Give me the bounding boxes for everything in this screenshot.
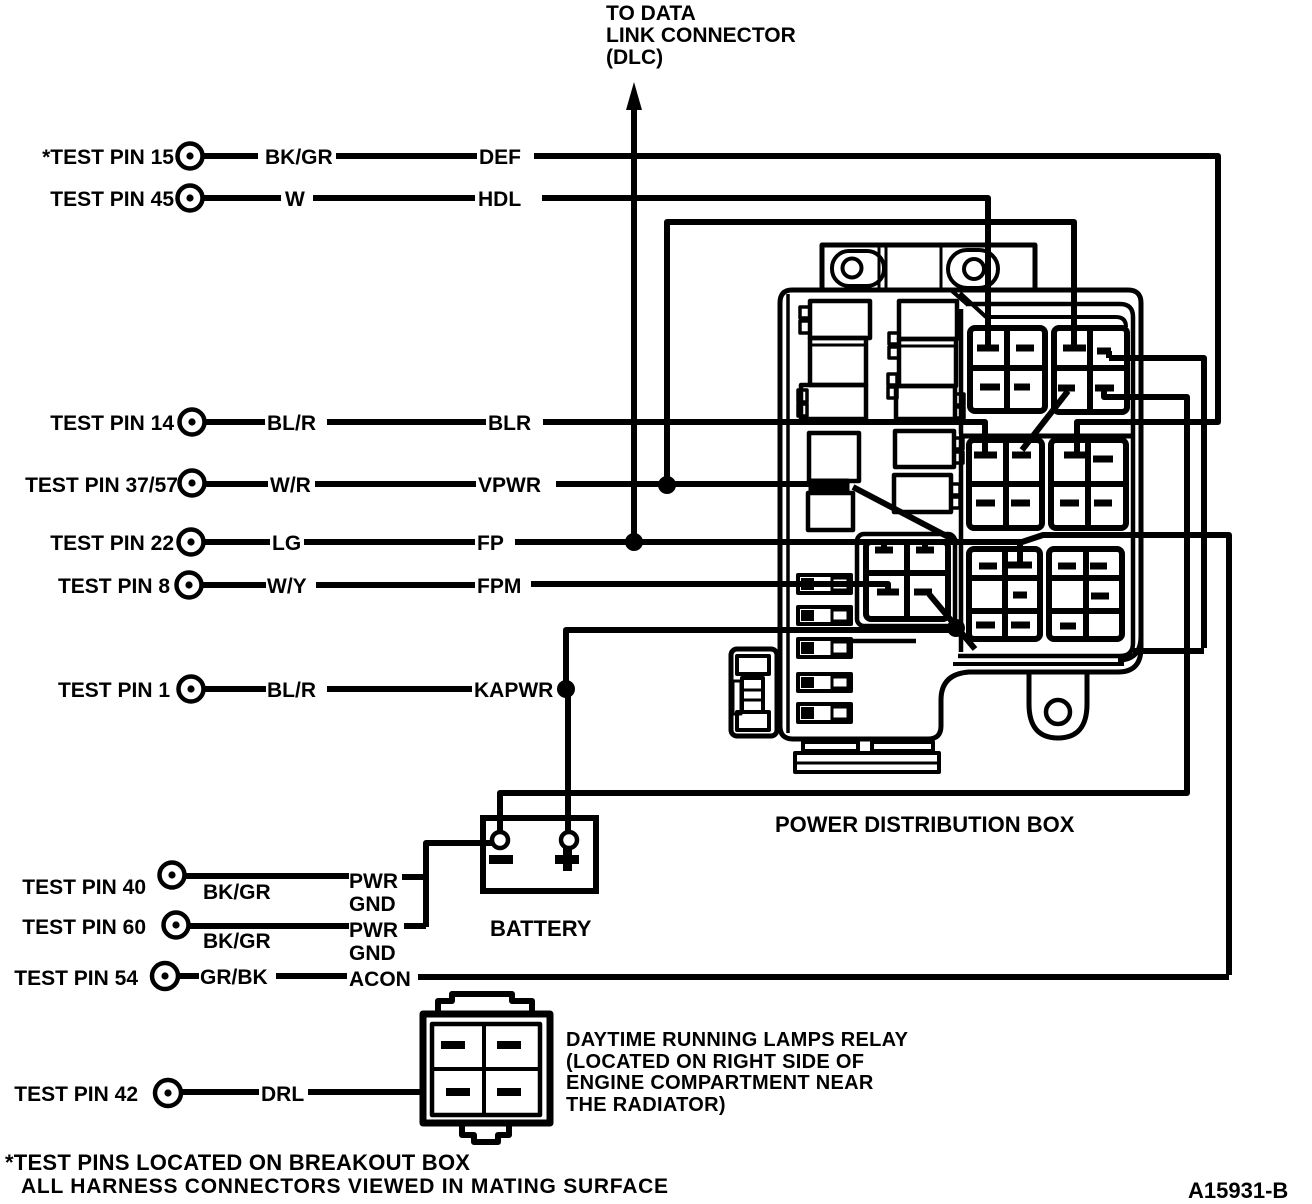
svg-text:GR/BK: GR/BK xyxy=(200,966,268,989)
svg-text:(DLC): (DLC) xyxy=(606,46,663,69)
svg-text:A15931-B: A15931-B xyxy=(1188,1178,1288,1203)
svg-text:*TEST PIN 15: *TEST PIN 15 xyxy=(42,146,174,169)
svg-text:BATTERY: BATTERY xyxy=(490,916,592,941)
svg-text:TO DATA: TO DATA xyxy=(606,2,696,25)
svg-text:POWER DISTRIBUTION BOX: POWER DISTRIBUTION BOX xyxy=(775,812,1075,837)
svg-text:W: W xyxy=(285,188,305,211)
svg-text:ALL HARNESS CONNECTORS VIEWED: ALL HARNESS CONNECTORS VIEWED IN MATING … xyxy=(21,1175,669,1198)
svg-text:KAPWR: KAPWR xyxy=(474,679,553,702)
svg-text:TEST PIN 54: TEST PIN 54 xyxy=(14,967,138,990)
svg-text:BLR: BLR xyxy=(488,412,531,435)
svg-text:GND: GND xyxy=(349,942,396,965)
svg-text:TEST PIN 40: TEST PIN 40 xyxy=(22,876,146,899)
svg-text:BL/R: BL/R xyxy=(267,412,316,435)
svg-text:TEST PIN 8: TEST PIN 8 xyxy=(58,575,170,598)
svg-text:TEST PIN 45: TEST PIN 45 xyxy=(50,188,174,211)
svg-text:THE RADIATOR): THE RADIATOR) xyxy=(566,1094,726,1116)
svg-text:BK/GR: BK/GR xyxy=(265,146,333,169)
svg-text:BK/GR: BK/GR xyxy=(203,930,271,953)
svg-text:ACON: ACON xyxy=(349,968,411,991)
svg-text:HDL: HDL xyxy=(478,188,521,211)
svg-text:BL/R: BL/R xyxy=(267,679,316,702)
svg-text:DEF: DEF xyxy=(479,146,521,169)
svg-text:TEST PIN 37/57: TEST PIN 37/57 xyxy=(25,474,178,497)
svg-text:TEST PIN 22: TEST PIN 22 xyxy=(50,532,174,555)
svg-text:TEST PIN 14: TEST PIN 14 xyxy=(50,412,174,435)
svg-text:DRL: DRL xyxy=(261,1083,304,1106)
svg-text:LG: LG xyxy=(272,532,301,555)
svg-text:(LOCATED ON RIGHT SIDE OF: (LOCATED ON RIGHT SIDE OF xyxy=(566,1051,864,1073)
svg-text:BK/GR: BK/GR xyxy=(203,881,271,904)
svg-text:ENGINE COMPARTMENT NEAR: ENGINE COMPARTMENT NEAR xyxy=(566,1072,874,1094)
svg-text:DAYTIME RUNNING LAMPS RELAY: DAYTIME RUNNING LAMPS RELAY xyxy=(566,1029,909,1051)
svg-text:TEST PIN 60: TEST PIN 60 xyxy=(22,916,146,939)
svg-text:TEST PIN 42: TEST PIN 42 xyxy=(14,1083,138,1106)
svg-text:FP: FP xyxy=(477,532,504,555)
svg-text:PWR: PWR xyxy=(349,870,398,893)
svg-text:GND: GND xyxy=(349,893,396,916)
svg-text:*TEST PINS LOCATED ON BREAKOUT: *TEST PINS LOCATED ON BREAKOUT BOX xyxy=(5,1150,470,1175)
svg-text:W/Y: W/Y xyxy=(267,575,307,598)
svg-text:TEST PIN 1: TEST PIN 1 xyxy=(58,679,170,702)
svg-text:FPM: FPM xyxy=(477,575,521,598)
svg-text:PWR: PWR xyxy=(349,919,398,942)
svg-text:LINK CONNECTOR: LINK CONNECTOR xyxy=(606,24,796,47)
svg-text:VPWR: VPWR xyxy=(478,474,541,497)
svg-text:W/R: W/R xyxy=(270,474,311,497)
